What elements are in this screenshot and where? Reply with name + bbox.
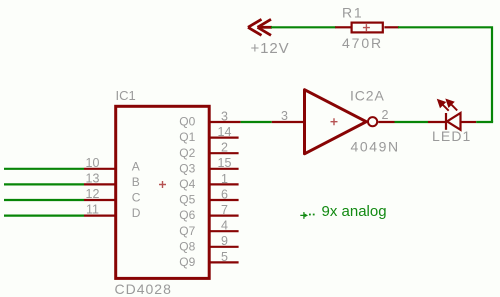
svg-text:11: 11 xyxy=(86,203,99,217)
anode triangle xyxy=(447,113,461,130)
svg-text:Q7: Q7 xyxy=(179,224,195,238)
wire to A xyxy=(4,168,84,170)
op-amp/inverter IC2A input pin 3 xyxy=(272,121,305,123)
svg-text:Q1: Q1 xyxy=(179,130,195,144)
svg-text:15: 15 xyxy=(218,156,232,170)
pin 14 (Q1) xyxy=(209,137,238,139)
pin 4 (Q7) xyxy=(209,230,238,232)
pin 7 (Q6) xyxy=(209,215,238,217)
left pin numbers xyxy=(86,156,100,217)
wire LED to corner xyxy=(476,121,493,123)
wire +12V to R1 xyxy=(271,26,336,28)
svg-text:14: 14 xyxy=(218,125,232,139)
pin 6 (Q5) xyxy=(209,199,238,201)
origin cross IC2A xyxy=(331,118,338,125)
svg-text:IC1: IC1 xyxy=(116,88,136,103)
IC2A output pin 2 xyxy=(378,121,394,123)
svg-text:Q2: Q2 xyxy=(179,146,195,160)
LED1 xyxy=(428,113,476,130)
pin 15 (Q3) xyxy=(209,168,238,170)
svg-text:D: D xyxy=(132,206,141,220)
svg-text:5: 5 xyxy=(221,250,228,264)
wire to D xyxy=(4,215,84,217)
resistor R1 xyxy=(335,23,399,33)
svg-text:B: B xyxy=(132,175,140,189)
pin 3 (Q0) xyxy=(209,121,240,123)
svg-text:13: 13 xyxy=(86,171,100,185)
svg-text:9x analog: 9x analog xyxy=(322,203,387,220)
svg-text:Q5: Q5 xyxy=(179,193,195,207)
pin 2 (Q2) xyxy=(209,152,238,154)
svg-text:12: 12 xyxy=(86,187,100,201)
origin cross R1 xyxy=(363,24,370,31)
svg-text:9: 9 xyxy=(221,234,228,248)
svg-text:+12V: +12V xyxy=(251,40,290,57)
input wires (left, net stubs) xyxy=(4,169,84,216)
wire inverter to LED xyxy=(395,121,429,123)
svg-text:2: 2 xyxy=(382,108,389,122)
right pin names Q0..Q9 xyxy=(179,115,195,269)
svg-text:1: 1 xyxy=(221,172,228,186)
svg-text:4049N: 4049N xyxy=(351,138,400,154)
svg-text:Q8: Q8 xyxy=(179,239,195,253)
svg-text:4: 4 xyxy=(221,219,228,233)
inverter bubble xyxy=(368,117,377,126)
svg-text:2: 2 xyxy=(221,141,228,155)
pin 1 (Q4) xyxy=(209,183,238,185)
svg-text:3: 3 xyxy=(281,109,288,123)
svg-text:Q6: Q6 xyxy=(179,208,195,222)
pin 13 (B) xyxy=(84,183,116,185)
svg-text:470R: 470R xyxy=(342,35,383,51)
wire Q0 to inverter xyxy=(241,121,272,123)
svg-text:C: C xyxy=(132,191,141,205)
IC1 body xyxy=(116,106,210,278)
supply arrow +12V xyxy=(248,19,272,35)
svg-text:10: 10 xyxy=(86,156,100,170)
pin 12 (C) xyxy=(84,199,116,201)
wire to C xyxy=(4,199,84,201)
wire to B xyxy=(4,183,84,185)
left pin names A B C D xyxy=(132,159,141,220)
cathode bar xyxy=(445,113,447,130)
svg-text:R1: R1 xyxy=(342,5,364,21)
pin 9 (Q8) xyxy=(209,246,238,248)
svg-text:LED1: LED1 xyxy=(432,128,471,144)
svg-text:3: 3 xyxy=(221,109,228,123)
svg-text:7: 7 xyxy=(221,203,228,217)
pin 11 (D) xyxy=(84,215,116,217)
svg-text:6: 6 xyxy=(221,187,228,201)
pin 10 (A) xyxy=(84,168,116,170)
IC1 right pins Q0..Q9 xyxy=(209,122,240,262)
wire R1 to corner and down to LED xyxy=(398,27,492,122)
right pin numbers xyxy=(218,109,232,263)
origin cross IC1 xyxy=(159,181,166,188)
note origin arrowhead xyxy=(305,214,308,218)
svg-text:A: A xyxy=(132,159,140,173)
svg-text:Q3: Q3 xyxy=(179,161,195,175)
svg-text:CD4028: CD4028 xyxy=(115,281,172,297)
note text origin cross xyxy=(300,212,305,219)
svg-text:Q0: Q0 xyxy=(179,115,195,129)
svg-text:IC2A: IC2A xyxy=(350,87,385,103)
inverter IC2A triangle xyxy=(305,90,367,154)
IC1 left pins xyxy=(84,169,116,216)
LED emission arrows xyxy=(438,100,457,111)
svg-text:Q9: Q9 xyxy=(179,255,195,269)
svg-text:Q4: Q4 xyxy=(179,177,195,191)
pin 5 (Q9) xyxy=(209,261,238,263)
note text origin dots xyxy=(309,214,311,216)
